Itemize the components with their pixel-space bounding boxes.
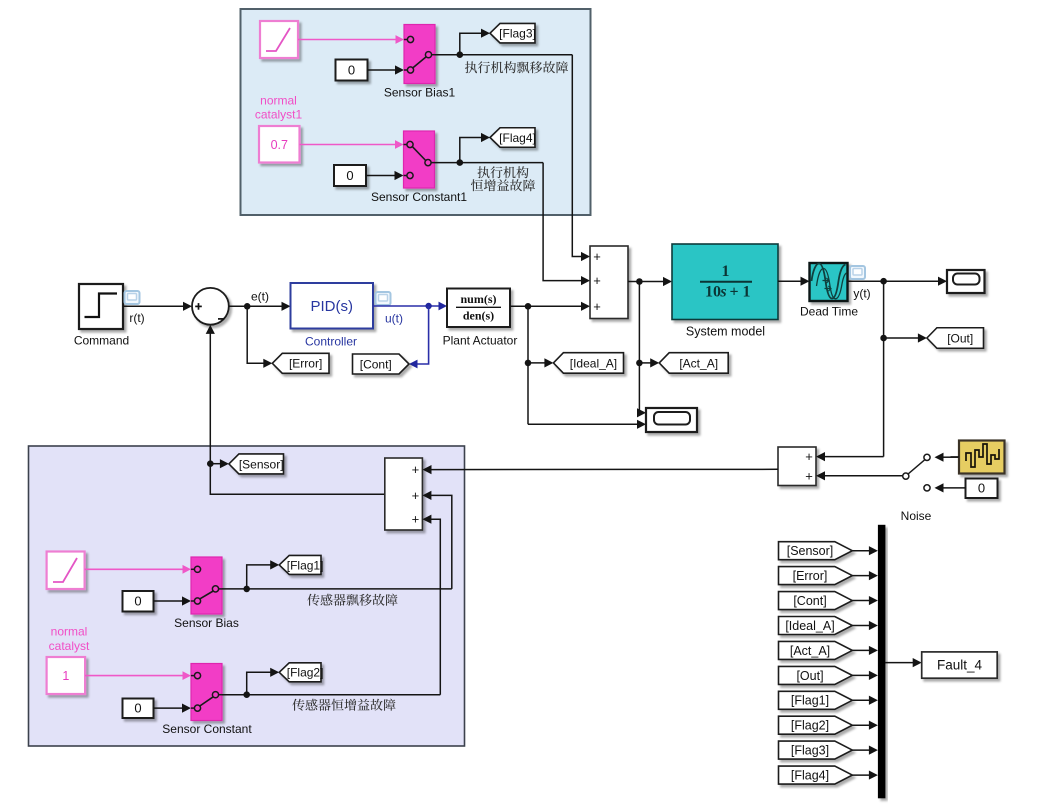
svg-text:[Act_A]: [Act_A] — [679, 356, 718, 370]
svg-text:catalyst1: catalyst1 — [255, 107, 303, 121]
svg-text:Sensor Constant: Sensor Constant — [162, 722, 252, 736]
scope (output y) — [947, 270, 985, 293]
svg-text:[Out]: [Out] — [796, 669, 823, 683]
label sensor drift fault (Chinese) — [307, 594, 319, 606]
sum junction (circle, + -) — [192, 288, 229, 325]
goto tag [Cont] — [353, 354, 410, 374]
svg-text:r(t): r(t) — [129, 311, 144, 325]
svg-text:0: 0 — [134, 701, 141, 716]
svg-text:+ 1: + 1 — [729, 283, 750, 300]
svg-text:[Flag3]: [Flag3] — [499, 27, 536, 41]
svg-text:[Sensor]: [Sensor] — [787, 544, 834, 558]
constant 1 (normal catalyst value) — [47, 657, 86, 694]
goto tag [Act_A] — [659, 353, 728, 374]
wire actuator sum to System model with branch down to [Act_A] and scope — [628, 277, 672, 418]
svg-text:1: 1 — [62, 669, 69, 683]
from tag [Ideal_A] to mux — [779, 617, 878, 635]
svg-text:[Flag2]: [Flag2] — [791, 719, 829, 733]
band-limited white noise block (yellow) — [951, 441, 1005, 474]
svg-text:[Flag1]: [Flag1] — [287, 558, 324, 572]
from tag [Act_A] to mux — [779, 641, 878, 659]
switch Sensor Constant — [162, 664, 252, 737]
label normal catalyst1 (magenta) — [255, 93, 303, 121]
constant 0 (Sensor Bias1 nominal) — [336, 60, 368, 81]
svg-text:+: + — [412, 462, 420, 477]
transfer function System model 1/(10s+1) — [672, 244, 778, 338]
from tag [Flag1] to mux — [779, 691, 878, 709]
from tag [Flag4] to mux — [779, 766, 878, 784]
wire Sensor Bias output to Flag1 and sensor sum — [222, 491, 452, 592]
svg-text:Plant Actuator: Plant Actuator — [443, 333, 518, 347]
svg-text:+: + — [805, 469, 813, 484]
svg-text:y(t): y(t) — [853, 286, 870, 300]
constant 0 (noise off) — [966, 479, 998, 499]
svg-text:Noise: Noise — [901, 509, 932, 523]
svg-text:s: s — [719, 283, 726, 300]
goto tag [Flag2] — [279, 663, 321, 682]
wire 1 to Sensor Constant in1 (magenta) — [85, 671, 191, 680]
goto tag [Ideal_A] — [553, 353, 623, 374]
from tag [Error] to mux — [779, 567, 878, 585]
wire Controller u(t) to Plant Actuator and [Cont] (blue) — [373, 302, 447, 369]
goto tag [Out] — [927, 328, 984, 349]
svg-text:Sensor Bias1: Sensor Bias1 — [384, 86, 456, 100]
wire System model to Dead Time — [778, 277, 810, 286]
wire sum to Controller with e(t) branch to [Error] — [229, 289, 291, 368]
svg-text:Controller: Controller — [305, 334, 357, 348]
svg-text:+: + — [805, 449, 813, 464]
Dead Time block — [800, 263, 871, 318]
svg-text:[Cont]: [Cont] — [360, 357, 392, 371]
svg-text:Command: Command — [74, 334, 129, 348]
svg-text:[Error]: [Error] — [793, 569, 828, 583]
goto tag [Flag4] — [490, 128, 535, 148]
manual switch Noise contacts and lever — [816, 454, 932, 523]
svg-text:Sensor Bias: Sensor Bias — [174, 616, 239, 630]
from tag [Out] to mux — [779, 666, 878, 684]
sum block (actuator faults, 3 inputs) — [590, 246, 628, 319]
svg-text:normal: normal — [51, 625, 88, 639]
svg-text:+: + — [412, 512, 420, 527]
wire ramp to Sensor Bias1 in1 (magenta) — [298, 35, 404, 44]
svg-text:Sensor Constant1: Sensor Constant1 — [371, 190, 467, 204]
from tag [Sensor] to mux — [779, 542, 878, 560]
svg-text:[Out]: [Out] — [947, 331, 973, 345]
label sensor constant-gain fault (Chinese) — [292, 699, 304, 711]
svg-text:+: + — [593, 299, 601, 314]
goto tag [Flag1] — [279, 555, 321, 574]
svg-text:[Flag4]: [Flag4] — [499, 131, 536, 145]
svg-text:[Cont]: [Cont] — [793, 594, 826, 608]
wire constant to Sensor Bias in2 — [154, 596, 192, 605]
svg-text:+: + — [593, 273, 601, 288]
switch Sensor Bias — [174, 557, 239, 630]
wire Sensor Constant1 output to Flag4 and actuator sum — [435, 133, 591, 285]
ramp source (sensor drift profile) — [47, 552, 85, 590]
label actuator constant-gain fault (Chinese, two lines) — [471, 166, 535, 191]
PID controller block — [291, 283, 391, 348]
scope (actuator compare, 2 inputs) — [646, 408, 697, 432]
svg-text:PID(s): PID(s) — [310, 298, 353, 315]
feedback wire sensor sum output to sum circle and [Sensor] — [206, 325, 385, 494]
wire constant to Sensor Bias1 in2 — [368, 65, 405, 74]
step source Command — [74, 284, 145, 348]
svg-text:[Ideal_A]: [Ideal_A] — [785, 619, 834, 633]
from tag [Flag3] to mux — [779, 741, 878, 759]
wire mux to Fault_4 — [885, 658, 922, 667]
svg-text:e(t): e(t) — [251, 289, 269, 303]
constant 0 (Sensor Constant1 nominal) — [334, 165, 366, 186]
svg-text:num(s): num(s) — [460, 292, 496, 306]
svg-text:[Flag4]: [Flag4] — [791, 768, 829, 782]
svg-text:[Error]: [Error] — [289, 357, 322, 371]
wire noise sum output to sensor sum (long feedback) — [423, 465, 779, 474]
svg-text:[Sensor]: [Sensor] — [239, 457, 284, 471]
wire constant to Sensor Constant1 in2 — [366, 171, 404, 180]
constant 0 (Sensor Bias nominal) — [123, 591, 154, 612]
svg-text:+: + — [593, 249, 601, 264]
wire Plant Actuator to actuator sum with branch down — [510, 302, 646, 429]
wire constant to Sensor Constant in2 — [154, 704, 192, 713]
svg-text:1: 1 — [722, 263, 730, 280]
wire y(t) to scope, [Out], and noise sum — [816, 277, 947, 462]
svg-text:den(s): den(s) — [463, 308, 494, 322]
svg-text:0: 0 — [346, 168, 353, 183]
To-Workspace block Fault_4 — [922, 652, 998, 678]
ramp source (actuator drift profile) — [260, 21, 298, 58]
goto tag [Sensor] — [229, 454, 284, 474]
from tag [Cont] to mux — [779, 592, 878, 610]
fault-injection area box (sensor, lavender) — [29, 446, 465, 746]
svg-text:[Act_A]: [Act_A] — [790, 644, 830, 658]
svg-text:Dead Time: Dead Time — [800, 304, 858, 318]
svg-text:[Ideal_A]: [Ideal_A] — [570, 356, 617, 370]
goto tag [Flag3] — [490, 23, 535, 43]
svg-text:System model: System model — [686, 324, 765, 338]
svg-text:0.7: 0.7 — [271, 138, 288, 152]
wire noise block to switch top contact — [935, 453, 959, 462]
svg-text:0: 0 — [134, 594, 141, 609]
fault-injection area box (actuator, light blue) — [241, 9, 591, 215]
wire Sensor Bias1 output to Flag3 and actuator sum — [435, 29, 590, 262]
svg-text:+: + — [412, 488, 420, 503]
goto tag [Error] — [272, 353, 329, 373]
svg-text:u(t): u(t) — [385, 312, 403, 326]
svg-text:0: 0 — [348, 63, 355, 78]
svg-text:Fault_4: Fault_4 — [937, 658, 983, 673]
label actuator drift fault (Chinese) — [465, 61, 477, 73]
sum block (output + noise, mirrored 2 inputs) — [778, 447, 816, 486]
mux (fault signal bus) — [878, 525, 886, 799]
svg-text:normal: normal — [260, 93, 297, 107]
switch Sensor Bias1 — [384, 25, 456, 100]
svg-text:[Flag1]: [Flag1] — [791, 694, 829, 708]
wire Command to sum junction — [123, 302, 192, 311]
constant 0 (Sensor Constant nominal) — [123, 699, 154, 719]
sum block (sensor faults, mirrored 3 inputs) — [385, 458, 423, 530]
wire constant 0 to switch bottom contact — [935, 483, 966, 492]
svg-text:catalyst: catalyst — [49, 639, 90, 653]
constant 0.7 (normal catalyst1 value) — [259, 126, 300, 163]
label normal catalyst (magenta) — [49, 625, 90, 654]
wire ramp to Sensor Bias in1 (magenta) — [85, 565, 191, 574]
svg-text:0: 0 — [978, 481, 985, 496]
transfer function Plant Actuator — [443, 289, 518, 348]
wire Sensor Constant output to Flag2 and sensor sum — [222, 515, 440, 698]
switch Sensor Constant1 — [371, 131, 467, 204]
svg-text:[Flag3]: [Flag3] — [791, 744, 829, 758]
from tag [Flag2] to mux — [779, 716, 878, 734]
svg-text:10: 10 — [705, 283, 721, 300]
wire 0.7 to Sensor Constant1 in1 (magenta) — [300, 140, 404, 149]
svg-text:[Flag2]: [Flag2] — [287, 666, 324, 680]
